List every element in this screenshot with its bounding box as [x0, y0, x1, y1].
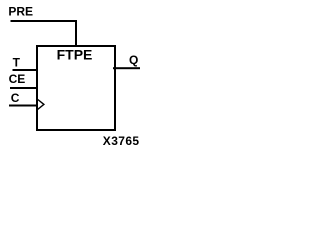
wire CE	[10, 87, 38, 89]
svg-text:C: C	[11, 91, 20, 105]
svg-text:CE: CE	[9, 72, 26, 86]
wire T	[13, 69, 39, 71]
wire PRE vertical drop	[75, 20, 77, 47]
svg-text:PRE: PRE	[8, 5, 33, 19]
svg-text:FTPE: FTPE	[57, 47, 93, 63]
flip-flop body U1 FTPE	[37, 46, 115, 130]
wire PRE horizontal	[11, 20, 78, 22]
wire C	[9, 105, 38, 107]
clock input triangle	[38, 100, 44, 110]
svg-text:X3765: X3765	[103, 134, 140, 148]
wire Q	[113, 67, 140, 69]
svg-text:Q: Q	[129, 53, 138, 67]
svg-text:T: T	[13, 56, 21, 70]
